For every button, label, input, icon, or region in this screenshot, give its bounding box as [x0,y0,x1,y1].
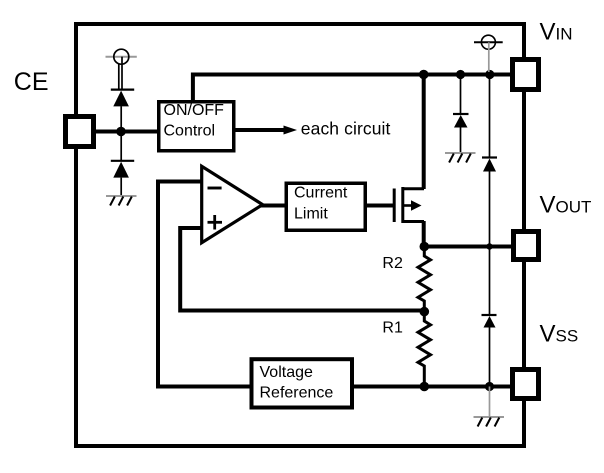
wire: op-amp output to Current Limit [261,204,288,208]
node: R1 bottom / VSS rail [420,382,430,392]
block: Voltage Reference [252,359,353,407]
wire: feedback from R1/R2 divider to op-amp non-inverting input [180,228,424,311]
op-amp non-inverting input sign [208,221,223,224]
transistor Q1: PMOS pass element [394,187,424,223]
node: VIN rail / parasitic diode line [485,70,494,79]
wire: top rail from ON/OFF Control up and right to VIN pin [193,75,511,103]
svg-text:Limit: Limit [294,205,328,222]
node: VSS rail / parasitic diode line [485,382,494,391]
pin pad VOUT [514,232,539,260]
block: ON/OFF Control U1 [159,102,234,151]
op-amp U2 (error amplifier) [202,166,263,242]
node: VOUT / R2 top [420,242,430,252]
svg-text:Voltage: Voltage [260,364,313,381]
ground: CE ESD [106,196,137,206]
pin pad VIN [513,60,539,90]
op-amp inverting input sign [208,187,222,190]
CE external terminal circle [106,49,137,90]
node: CE wire junction [116,127,126,137]
svg-text:Current: Current [294,185,348,202]
IC boundary [76,24,524,446]
svg-text:Control: Control [164,122,216,139]
svg-text:CE: CE [14,68,49,96]
pin pad CE [66,117,94,147]
node: VIN rail / MOSFET source [419,70,429,80]
ground: VSS [474,417,505,427]
node: VIN rail / ESD diode [456,70,465,79]
wire: Voltage Reference net to op-amp inverting input [158,182,253,387]
resistor R2 [418,248,431,311]
block: Current Limit [286,183,365,230]
wire: CE pin to ON/OFF Control [93,130,160,134]
node: VOUT wire / parasitic diode line (small) [486,243,492,249]
svg-text:R2: R2 [382,255,403,272]
body arrow [403,204,412,207]
wire: MOSFET drain down to VOUT node [422,221,426,248]
diode D5 (cathode up) [482,314,497,316]
wire: VOUT node to VOUT pin [424,245,514,249]
parasitic diode line VIN to VOUT [482,75,497,247]
drain terminal [403,220,424,223]
svg-text:ON/OFF: ON/OFF [164,102,225,119]
svg-text:Reference: Reference [260,385,334,402]
svg-text:R1: R1 [382,320,403,337]
wire: VSS rail from Voltage Reference to VSS pin [351,385,514,389]
diode D1: CE ESD to internal (cathode up) [111,90,134,132]
arrowhead: each circuit [284,126,298,135]
diode D3: VIN ESD to ground (cathode up) [453,75,469,154]
source terminal [403,187,424,190]
wire: ON/OFF Control output to each circuit [234,128,285,132]
diode D2: CE ESD to ground (cathode up) [111,132,134,197]
diode D4 (cathode up) [482,156,497,158]
resistor R1 [418,311,431,387]
VIN external terminal circle [474,35,503,72]
wire: Current Limit to MOSFET gate [365,204,394,208]
svg-text:each circuit: each circuit [301,118,391,138]
node: R1/R2 feedback tap [420,307,430,317]
wire: VSS rail to ground (gray) [489,387,491,418]
wire: MOSFET source up to VIN rail [422,75,426,190]
pin pad VSS [513,370,539,399]
ground: VIN ESD [445,153,476,163]
parasitic diode line VOUT to VSS [482,247,497,387]
gate bar [393,189,396,223]
channel bar [401,187,404,223]
